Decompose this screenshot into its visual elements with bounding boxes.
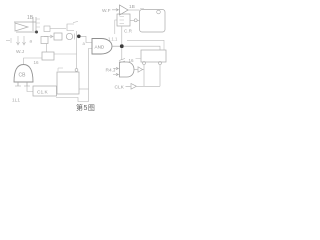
svg-text:第5图: 第5图	[76, 103, 95, 112]
wire (y53 run from C1 box to riser)	[54, 53, 77, 55]
block O1 (small circle middle row)	[66, 33, 72, 39]
svg-text:16: 16	[34, 60, 40, 65]
svg-text:C1.K: C1.K	[37, 90, 48, 96]
terminal circles of M2	[143, 62, 146, 65]
wire (U6 left side down)	[115, 20, 117, 34]
svg-text:1L1: 1L1	[12, 98, 20, 104]
wire (M2 right terminal down)	[159, 65, 161, 87]
wire (U4 output with small triangle)	[134, 69, 138, 71]
svg-text:W.F: W.F	[102, 8, 111, 14]
node J1 (dark junction middle)	[77, 35, 81, 39]
wire (CLK to right risers)	[137, 85, 161, 87]
wire (riser up to AND gate lower input)	[89, 49, 93, 90]
gate U5 (dome / bell shaped, bottom-left)	[14, 65, 33, 83]
pin circle on B1 top	[75, 69, 78, 72]
svg-text:1B: 1B	[129, 4, 135, 10]
svg-text:16: 16	[129, 58, 135, 63]
node J2 (dark junction right)	[120, 44, 124, 48]
capacitor C1 (small component under top-left, box at 42,52)	[41, 37, 54, 61]
wire (bottom step under B1)	[56, 89, 89, 102]
capacitor C2 (middle top row small box)	[44, 26, 50, 32]
svg-text:CLK: CLK	[115, 85, 125, 91]
block M2 (wide box, right middle)	[141, 50, 166, 62]
transistor Q1 (left column marks)	[11, 36, 26, 45]
label ticks above B1	[58, 68, 63, 71]
svg-text:1.1.1: 1.1.1	[108, 37, 118, 42]
gate U4 (bottom-right)	[119, 59, 134, 78]
gate U2 (AND gate, centre)	[92, 39, 112, 55]
wire (junction up to top-right cluster)	[121, 27, 123, 45]
wire (U6 output with bubble)	[130, 19, 140, 21]
wire (junction to AND gate upper input)	[81, 36, 93, 42]
wire (top row)	[50, 28, 66, 30]
wire (U5 leg to CLK box)	[27, 86, 33, 92]
node A (dark junction at U1 bottom-right)	[35, 31, 38, 34]
wire (vertical from top row down to B1)	[76, 31, 78, 69]
svg-text:1B: 1B	[27, 15, 34, 21]
op-amp U1 (top-left block)	[14, 17, 40, 32]
gate U3 (triangle, top-right)	[120, 5, 129, 15]
wire (dome to box at y58)	[24, 58, 43, 64]
svg-text:a: a	[83, 41, 86, 46]
block D1 (small box middle row)	[54, 33, 62, 40]
block M1 (rounded box, top right)	[140, 10, 166, 33]
svg-text:C.R: C.R	[124, 29, 133, 34]
block U6 (box under triangle)	[117, 14, 130, 26]
svg-text:CB: CB	[19, 73, 27, 79]
block B1 (big box bottom-middle)	[57, 72, 79, 94]
wire (junction right to box2 riser)	[124, 46, 160, 50]
wire (y40 run top)	[127, 40, 164, 50]
svg-text:AND: AND	[95, 45, 105, 50]
svg-text:a: a	[30, 39, 33, 44]
resistor R2 (C-shape with tick, top row right)	[67, 22, 78, 31]
CLK box (bottom-left centre)	[33, 86, 57, 96]
wire (junction down to gate U4)	[121, 48, 123, 60]
wire (arrow into D box, middle row)	[44, 35, 53, 38]
wire (U2 output to right junction)	[112, 45, 120, 47]
wire (B1 right to riser)	[79, 88, 89, 90]
wire (input arrow far left)	[6, 40, 10, 42]
svg-text:W.J: W.J	[16, 49, 25, 55]
pin legs of U5	[15, 82, 30, 86]
wire (U3 out to box R)	[128, 9, 140, 11]
wire (M2 left terminal down)	[143, 65, 145, 87]
pin circle on M1 top	[157, 10, 161, 14]
